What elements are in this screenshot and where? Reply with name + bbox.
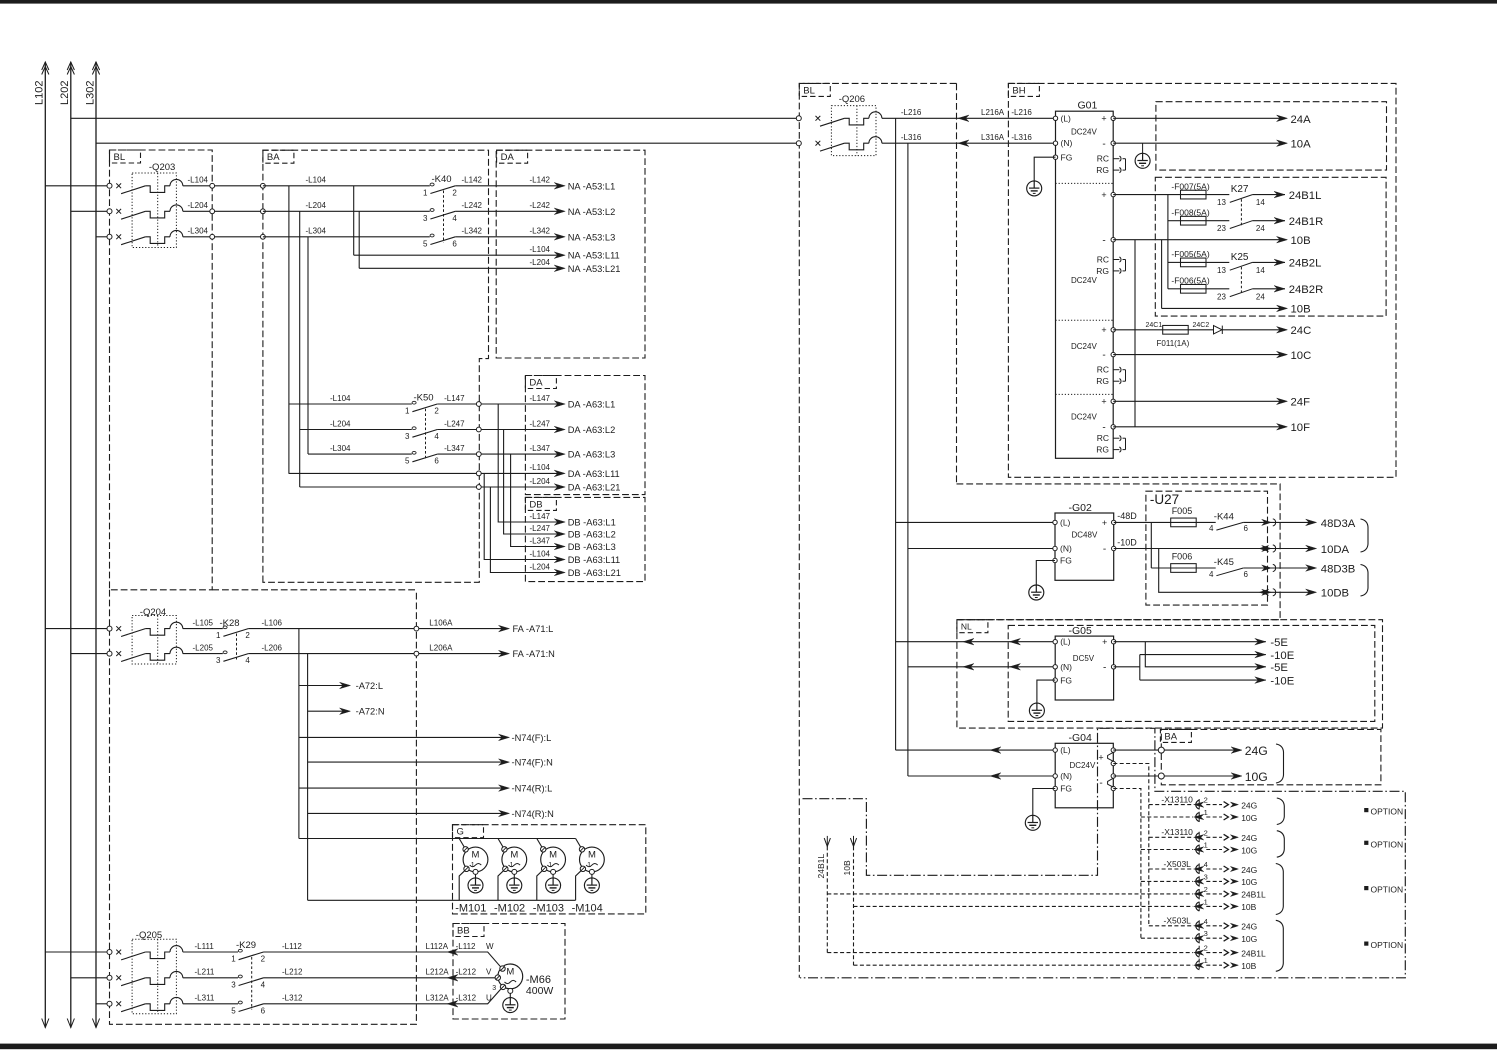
bus L102 xyxy=(44,62,46,1028)
wire -L147 to DA box xyxy=(437,403,560,405)
label box BB xyxy=(453,924,484,937)
arrow 10DA xyxy=(1306,545,1317,552)
wire bus to Q204 pole 2 xyxy=(71,653,110,655)
breaker Q205 pole 3 xyxy=(107,1001,112,1006)
contact K25 pins 23/24 xyxy=(1230,289,1253,297)
crossing 10DA at U27 edge xyxy=(1262,545,1272,551)
breaker Q203 pole 1 xyxy=(107,183,112,188)
wire -L347 drop to DB xyxy=(511,454,561,546)
arrow -A72:N xyxy=(340,708,351,715)
wire return M104 xyxy=(576,871,582,901)
svg-text:3: 3 xyxy=(1204,872,1208,881)
svg-text:24B1L: 24B1L xyxy=(816,854,826,879)
label box DA lower xyxy=(525,376,556,389)
wire -5E first xyxy=(1114,641,1266,643)
G01 S2 - pin xyxy=(1111,238,1115,242)
svg-text:-L111: -L111 xyxy=(195,942,215,951)
svg-text:10B: 10B xyxy=(842,860,852,875)
wire F006 to K25 23 xyxy=(1206,288,1229,290)
wire to -A72:N xyxy=(308,710,346,712)
svg-text:-X13110: -X13110 xyxy=(1161,827,1193,837)
wire segment: lower box top edge xyxy=(212,589,416,591)
location box BA xyxy=(263,150,489,582)
svg-text:L312A: L312A xyxy=(426,994,450,1003)
svg-text:-M101: -M101 xyxy=(455,903,486,915)
wire 10A xyxy=(1113,142,1283,144)
svg-text:24B1R: 24B1R xyxy=(1289,216,1324,228)
connector X503L (2) body xyxy=(1198,920,1200,970)
page bottom border bar xyxy=(0,1044,1497,1050)
node -L104 BA edge xyxy=(261,183,266,188)
terminal M66 W xyxy=(500,966,505,971)
svg-text:DC24V: DC24V xyxy=(1070,761,1096,770)
svg-text:DA -A63:L11: DA -A63:L11 xyxy=(568,469,620,479)
motor M102 xyxy=(502,847,527,872)
G01 S4 - pin xyxy=(1111,425,1115,429)
wire -L342 to DA box xyxy=(455,236,560,238)
svg-text:-L142: -L142 xyxy=(462,176,483,185)
wire -10E second xyxy=(1140,679,1266,681)
arrow FA -A71:N xyxy=(499,650,510,657)
wire 24A xyxy=(1113,117,1283,119)
wire 10G option bus xyxy=(1113,789,1141,939)
wire L distribution vertical xyxy=(298,629,300,839)
wire S2 + to fuses xyxy=(1113,194,1180,196)
svg-text:-L104: -L104 xyxy=(530,463,551,472)
svg-text:14: 14 xyxy=(1256,266,1265,275)
OPTION label 1 xyxy=(1364,808,1368,812)
svg-text:-L347: -L347 xyxy=(530,537,551,546)
svg-text:-L104: -L104 xyxy=(330,394,351,403)
svg-text:G01: G01 xyxy=(1078,100,1098,112)
fuse F006 (U27) xyxy=(1151,567,1170,569)
svg-text:F005: F005 xyxy=(1172,506,1193,516)
svg-text:-K45: -K45 xyxy=(1214,557,1234,568)
wire 48D branch to F006 xyxy=(1150,522,1152,568)
wire -L104 to NA:L11 xyxy=(354,254,561,256)
svg-text:W: W xyxy=(486,942,494,951)
svg-text:(N): (N) xyxy=(1060,662,1072,672)
wire 10C out xyxy=(1113,354,1283,356)
OPTION label 4 xyxy=(1364,942,1368,946)
option boundary dash-dot xyxy=(800,728,1405,978)
arrow 48D3A xyxy=(1306,519,1317,526)
wire L216 drop to power supplies xyxy=(895,118,897,750)
arrow into BB L212A xyxy=(447,975,458,982)
G05 - pin xyxy=(1111,665,1115,669)
location box DA (upper, NA-A53 outputs) xyxy=(496,150,645,358)
svg-text:-L106: -L106 xyxy=(262,618,283,627)
connector X13110 (2) pin 1 / 10G xyxy=(1141,849,1193,851)
wire 48D3B out xyxy=(1243,567,1312,569)
brace X13110 (2) xyxy=(1277,831,1285,858)
arrow DB -A63:L2 xyxy=(554,531,565,538)
node -L247 junction xyxy=(476,427,481,432)
svg-text:-L316: -L316 xyxy=(901,133,922,142)
svg-text:2: 2 xyxy=(1204,828,1208,837)
breaker Q206 pole 1 xyxy=(796,116,801,121)
svg-text:-L205: -L205 xyxy=(193,643,214,652)
wire 24B1R out xyxy=(1252,220,1285,222)
wire S3 + to F011 xyxy=(1113,329,1163,331)
contact K50 pins 5/6 xyxy=(412,451,416,454)
svg-text:-L204: -L204 xyxy=(530,477,551,486)
arrow 10G xyxy=(1231,773,1242,780)
svg-text:-L247: -L247 xyxy=(530,524,551,533)
node -L304 BA edge xyxy=(261,234,266,239)
svg-text:L302: L302 xyxy=(84,81,96,105)
location box BL (right, Q206) xyxy=(799,83,956,977)
wire 10D branch vertical xyxy=(1159,549,1313,593)
diode 24C xyxy=(1214,326,1223,334)
wire bus to Q205 pole 1 xyxy=(45,951,109,953)
svg-text:M: M xyxy=(472,850,480,861)
svg-text:+: + xyxy=(1101,397,1106,407)
arrow 24B1L xyxy=(1274,191,1285,198)
svg-text:4: 4 xyxy=(261,980,266,989)
arrow 10F xyxy=(1277,424,1288,431)
arrow DB -A63:L21 xyxy=(554,569,565,576)
wire 24B2L out xyxy=(1252,261,1285,263)
svg-text:-L204: -L204 xyxy=(306,201,327,210)
wire bus to Q203 pole 3 xyxy=(96,236,110,238)
svg-text:(L): (L) xyxy=(1060,517,1071,527)
bus L302 xyxy=(95,62,97,1028)
contact K29 linkage xyxy=(251,957,253,1010)
wire -L206 to FA-A71:N xyxy=(248,653,505,655)
svg-text:M: M xyxy=(506,967,514,978)
wire F007 to K27 xyxy=(1206,194,1229,196)
svg-text:10B: 10B xyxy=(1241,902,1256,912)
node -L147 junction xyxy=(476,402,481,407)
svg-text:-L105: -L105 xyxy=(193,618,214,627)
svg-text:10A: 10A xyxy=(1291,139,1312,151)
svg-text:23: 23 xyxy=(1217,224,1226,233)
svg-text:24C2: 24C2 xyxy=(1193,322,1210,329)
ground M104 xyxy=(591,874,593,878)
wire -L147 drop to DB xyxy=(498,404,560,522)
svg-text:DB -A63:L1: DB -A63:L1 xyxy=(568,518,616,528)
svg-text:-K28: -K28 xyxy=(220,618,240,629)
wire L202 to -Q206 (-L216 feed) xyxy=(71,117,799,119)
arrow DB -A63:L3 xyxy=(554,543,565,550)
svg-text:-F006(5A): -F006(5A) xyxy=(1171,275,1209,285)
contact K40 pins 3/4 xyxy=(430,209,434,212)
svg-text:+: + xyxy=(1101,114,1106,124)
arrow 24G xyxy=(1231,747,1242,754)
svg-text:24G: 24G xyxy=(1241,800,1257,810)
fuse F008 xyxy=(1181,216,1207,225)
svg-text:-L147: -L147 xyxy=(444,394,465,403)
svg-text:1: 1 xyxy=(1204,808,1208,817)
svg-text:FG: FG xyxy=(1060,784,1072,794)
location box G02 section xyxy=(957,484,1281,620)
svg-text:DB: DB xyxy=(529,499,542,510)
svg-text:-Q206: -Q206 xyxy=(839,94,865,105)
svg-text:DC48V: DC48V xyxy=(1072,531,1098,540)
arrow 24C xyxy=(1277,327,1288,334)
terminal M101 earth pin xyxy=(473,869,478,874)
svg-text:RG: RG xyxy=(1096,165,1109,175)
svg-text:10G: 10G xyxy=(1241,845,1257,855)
wire 24B1L option bus xyxy=(826,846,828,952)
wire tap -L104 down to K50 and DA:L11 xyxy=(288,186,290,474)
svg-text:DA: DA xyxy=(501,152,515,163)
wire bus to Q205 pole 2 xyxy=(71,977,110,979)
arrow 10DB xyxy=(1306,589,1317,596)
G05 pin (N) xyxy=(1053,665,1057,669)
connector X503L (1) pin 3 / 10G xyxy=(1141,880,1193,882)
wire -L304 Q203 to BA xyxy=(183,236,263,238)
arrow 24B2R xyxy=(1274,286,1285,293)
G01 section divider 1 xyxy=(1056,182,1114,184)
svg-text:+: + xyxy=(1101,325,1106,335)
contact K29 pins 3/4 xyxy=(238,975,242,978)
svg-text:-L247: -L247 xyxy=(530,419,551,428)
svg-text:1: 1 xyxy=(231,955,236,964)
ground G01 xyxy=(1027,181,1042,196)
wire -L311 to K29 xyxy=(183,1003,238,1005)
svg-text:-: - xyxy=(1102,139,1105,150)
G02 + pin xyxy=(1112,520,1116,524)
svg-text:13: 13 xyxy=(1217,198,1226,207)
wire 10B option bus xyxy=(853,846,855,965)
svg-text:10B: 10B xyxy=(1291,304,1311,316)
arrow DA -A63:L2 xyxy=(554,426,565,433)
svg-text:10B: 10B xyxy=(1291,235,1311,247)
svg-text:1: 1 xyxy=(423,188,428,197)
svg-text:BA: BA xyxy=(1164,731,1177,742)
svg-text:K27: K27 xyxy=(1231,184,1249,195)
breaker Q203 trip unit dotted box xyxy=(132,173,176,248)
svg-text:FG: FG xyxy=(1060,675,1072,685)
contact K50 pins 3/4 xyxy=(412,427,416,430)
svg-text:1: 1 xyxy=(587,862,591,869)
svg-text:1: 1 xyxy=(471,862,475,869)
wire -L247 drop to DB xyxy=(504,430,561,535)
wire tap -L104 down to NA:L11 xyxy=(353,186,355,255)
location box DA (lower, DA-A63 outputs) xyxy=(525,376,645,495)
svg-text:4: 4 xyxy=(1204,917,1208,926)
svg-text:23: 23 xyxy=(1217,292,1226,301)
svg-text:13: 13 xyxy=(1217,266,1226,275)
node -L204 junction xyxy=(476,485,481,490)
net 10B feed arrow xyxy=(850,838,856,846)
wire to -N74(R):L xyxy=(299,787,505,789)
wire to -A72:L xyxy=(299,685,346,687)
svg-text:24B1L: 24B1L xyxy=(1289,190,1322,202)
svg-text:24A: 24A xyxy=(1291,114,1312,126)
svg-text:-L112: -L112 xyxy=(282,942,302,951)
contact K40 pins 5/6 xyxy=(430,234,434,237)
svg-text:DB -A63:L21: DB -A63:L21 xyxy=(568,568,621,578)
terminal M102 return xyxy=(503,866,508,871)
motor M103 xyxy=(541,847,566,872)
G01 S3 - pin xyxy=(1111,352,1115,356)
svg-text:-K50: -K50 xyxy=(414,392,434,403)
svg-text:-L204: -L204 xyxy=(530,258,551,267)
arrow -N74(F):L xyxy=(499,734,510,741)
wire F005 to K25 xyxy=(1206,261,1229,263)
wire F005 to K44 xyxy=(1196,521,1216,523)
wire -L242 to DA box xyxy=(455,210,560,212)
svg-text:-L316: -L316 xyxy=(1011,133,1032,142)
brace X503L (1) xyxy=(1276,864,1284,915)
svg-text:24F: 24F xyxy=(1291,397,1311,409)
arrow DB -A63:L11 xyxy=(554,556,565,563)
crossing 48D3A at U27 edge xyxy=(1262,519,1272,525)
svg-text:F011(1A): F011(1A) xyxy=(1157,339,1190,348)
wire tap -L304 down to K50 xyxy=(307,237,309,454)
svg-text:-N74(R):L: -N74(R):L xyxy=(512,784,553,794)
svg-text:4: 4 xyxy=(434,432,439,441)
svg-text:NL: NL xyxy=(961,622,972,632)
svg-text:-L304: -L304 xyxy=(188,227,209,236)
svg-text:24G: 24G xyxy=(1241,922,1257,932)
arrow feed L216A xyxy=(958,115,969,122)
svg-text:10C: 10C xyxy=(1291,350,1312,362)
connector X503L (2) pin 3 / 10G xyxy=(1141,937,1193,939)
G05 pin FG xyxy=(1053,678,1057,682)
terminal M102 input xyxy=(502,847,507,852)
wire 10G out xyxy=(1113,775,1237,777)
connector X503L (1) body xyxy=(1198,863,1200,911)
wire 24G option bus xyxy=(1113,764,1149,926)
terminal M104 input xyxy=(579,847,584,852)
svg-text:(L): (L) xyxy=(1060,745,1071,755)
svg-text:-F007(5A): -F007(5A) xyxy=(1171,181,1209,191)
wire -L204 Q203 to BA xyxy=(183,210,263,212)
svg-text:3: 3 xyxy=(231,980,236,989)
svg-text:400W: 400W xyxy=(526,985,554,997)
ground 10A rail xyxy=(1142,143,1144,154)
arrow -5E first xyxy=(1255,638,1266,645)
terminal M103 earth pin xyxy=(551,869,556,874)
svg-text:-L204: -L204 xyxy=(188,201,209,210)
arrow 10B second xyxy=(1277,305,1288,312)
label box DB xyxy=(525,497,556,510)
contact K50 pins 1/2 xyxy=(412,401,416,404)
wire -L216 to G01 xyxy=(882,117,1056,119)
svg-text:3: 3 xyxy=(405,432,410,441)
fuse F011 xyxy=(1163,325,1189,334)
svg-text:24G: 24G xyxy=(1245,744,1268,758)
arrow 10B xyxy=(1277,236,1288,243)
brace 48D3A/10DA xyxy=(1361,519,1369,552)
crossing 48D3B at U27 edge xyxy=(1262,565,1272,571)
svg-text:-L247: -L247 xyxy=(444,419,465,428)
wire L216 to G05 xyxy=(896,641,1056,643)
node L106A xyxy=(414,626,419,631)
brace 24G/10G xyxy=(1276,744,1284,783)
svg-text:-L211: -L211 xyxy=(195,968,215,977)
svg-text:-G04: -G04 xyxy=(1069,732,1093,744)
svg-text:-L104: -L104 xyxy=(188,176,209,185)
wire tap -L204 down to NA:L21 xyxy=(358,211,360,268)
arrow DA -A63:L21 xyxy=(554,484,565,491)
svg-text:-L104: -L104 xyxy=(306,176,327,185)
wire feed to M103 xyxy=(537,839,543,850)
node -L204 BL edge xyxy=(210,209,215,214)
svg-text:L212A: L212A xyxy=(426,968,450,977)
G01 section divider 3 xyxy=(1056,393,1114,395)
contact K28 pins 1/2 xyxy=(223,626,227,629)
wire U to M66 xyxy=(447,989,501,1004)
connector X503L (1) pin 1 / 10B xyxy=(854,905,1193,907)
wire -L204 to K50 xyxy=(300,429,412,431)
G01 FG ground wire xyxy=(1034,157,1055,182)
wire motor N bus xyxy=(308,899,576,901)
arrow NA -A53:L2 xyxy=(554,208,565,215)
wire to -N74(R):N xyxy=(308,812,505,814)
svg-text:24: 24 xyxy=(1256,292,1265,301)
power supply G02 box xyxy=(1055,513,1114,580)
arrow NA -A53:L21 xyxy=(554,265,565,272)
ground M101 xyxy=(475,874,477,878)
arrow FA -A71:L xyxy=(499,625,510,632)
svg-text:L102: L102 xyxy=(34,81,46,105)
svg-text:-L242: -L242 xyxy=(462,201,483,210)
label box BL xyxy=(110,150,141,163)
svg-text:1: 1 xyxy=(1204,956,1208,965)
svg-text:-X503L: -X503L xyxy=(1164,916,1192,926)
svg-text:-L147: -L147 xyxy=(530,512,551,521)
G04 + pins pair xyxy=(1111,748,1115,752)
ground G05 xyxy=(1029,703,1044,718)
ground G04 xyxy=(1025,815,1040,830)
svg-text:-L242: -L242 xyxy=(530,201,551,210)
wire -L204 BA to K40 xyxy=(263,210,430,212)
breaker Q205 pole 1 xyxy=(107,950,112,955)
svg-text:(L): (L) xyxy=(1060,637,1071,647)
svg-text:L112A: L112A xyxy=(426,942,449,951)
svg-text:FG: FG xyxy=(1060,556,1072,566)
svg-text:(N): (N) xyxy=(1061,138,1073,148)
node -L304 BL edge xyxy=(210,234,215,239)
node -L104 BL edge xyxy=(210,183,215,188)
power supply G01 box xyxy=(1056,111,1114,458)
svg-text:-L304: -L304 xyxy=(306,227,327,236)
motor M104 xyxy=(580,847,605,872)
svg-text:-M103: -M103 xyxy=(533,903,564,915)
wire 10F out xyxy=(1113,426,1283,428)
wire to -N74(F):L xyxy=(299,736,505,738)
wire + branch to -5E second xyxy=(1145,642,1266,667)
svg-text:-: - xyxy=(1102,422,1105,433)
contact K40 pins 1/2 xyxy=(430,183,434,186)
G01 S4 + pin xyxy=(1111,399,1115,403)
power supply G05 box xyxy=(1055,636,1113,700)
svg-text:-N74(F):N: -N74(F):N xyxy=(512,758,553,768)
wire 24B1L out xyxy=(1252,194,1285,196)
svg-text:-L216: -L216 xyxy=(901,108,922,117)
svg-text:-L204: -L204 xyxy=(330,419,351,428)
wire -L106 to FA-A71:L xyxy=(248,628,505,630)
wire L216 to G04 xyxy=(896,749,1056,751)
wire return M103 xyxy=(537,871,543,901)
arrow 10A xyxy=(1277,140,1288,147)
svg-text:3: 3 xyxy=(216,656,221,665)
svg-text:-: - xyxy=(1102,350,1105,361)
svg-text:RC: RC xyxy=(1097,365,1109,375)
location box U27 xyxy=(1146,491,1268,605)
wire - branch to -10E rails xyxy=(1114,666,1140,668)
wire -L204 drop to DB xyxy=(490,487,560,573)
contact K29 pins 5/6 xyxy=(238,1001,242,1004)
svg-text:10F: 10F xyxy=(1291,422,1311,434)
svg-text:G: G xyxy=(457,827,464,838)
svg-text:-L206: -L206 xyxy=(262,643,283,652)
